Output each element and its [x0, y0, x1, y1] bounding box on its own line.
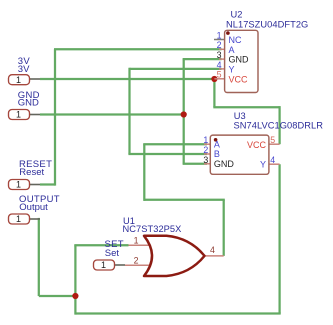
wire GND net vertical x=183.7 from U2 pin3	[183, 59, 185, 164]
U1 pin 2	[125, 264, 151, 266]
wire GND from port	[40, 113, 184, 115]
svg-text:1: 1	[217, 30, 222, 40]
junction dot at U2 VCC	[211, 76, 217, 82]
wire 3V down to U3 VCC pin5	[278, 106, 280, 144]
svg-text:GND: GND	[214, 159, 235, 169]
U2 pin 2 stub	[219, 48, 225, 50]
svg-text:Output: Output	[19, 202, 48, 213]
svg-text:1: 1	[16, 110, 21, 120]
wire bottom horizontal y=313.5	[75, 312, 280, 314]
wire feedback vertical x=75.4	[74, 245, 76, 314]
U3 pin 5 VCC stub	[269, 143, 280, 145]
svg-text:NC7ST32P5X: NC7ST32P5X	[123, 224, 182, 234]
svg-text:GND: GND	[229, 55, 250, 65]
junction dot GND net	[181, 111, 187, 117]
port 3V	[9, 56, 41, 85]
svg-text:3: 3	[203, 155, 208, 165]
wire U2Y-U3B vertical x=129.5	[128, 68, 130, 154]
wire OUTPUT stub-connect	[38, 218, 40, 219]
wire OUTPUT net: Y pin down right side	[278, 164, 280, 313]
wire into U3 pin1 A	[143, 143, 207, 145]
junction dot OUTPUT feedback	[72, 293, 78, 299]
wire 3V drop from junction	[213, 79, 215, 107]
svg-text:4: 4	[210, 245, 215, 255]
svg-text:1: 1	[134, 236, 139, 246]
svg-text:3: 3	[217, 50, 222, 60]
U2 body	[225, 30, 258, 92]
svg-text:4: 4	[270, 155, 275, 165]
svg-text:4: 4	[217, 60, 222, 70]
svg-text:2: 2	[203, 145, 208, 155]
wire into U3 pin2 B	[128, 153, 207, 155]
svg-text:A: A	[214, 139, 220, 149]
svg-text:1: 1	[16, 214, 21, 224]
svg-text:Reset: Reset	[19, 167, 44, 178]
wire RESET to U2 pin2 A	[54, 48, 222, 50]
svg-text:B: B	[214, 149, 220, 159]
wire 3V across to right	[213, 106, 279, 108]
U2 origin dot	[226, 31, 230, 35]
svg-text:2: 2	[217, 40, 222, 50]
svg-text:5: 5	[270, 135, 275, 145]
U3 pin 4 Y stub	[269, 163, 280, 165]
svg-text:U2: U2	[231, 9, 243, 19]
wire 3V horizontal to U2 VCC pin5	[40, 78, 214, 80]
wire U1 out vertical x=223.7	[223, 200, 225, 256]
svg-text:NC: NC	[229, 35, 242, 45]
port OUTPUT	[9, 194, 60, 224]
wire RESET vertical x=55	[54, 49, 56, 185]
wire OUTPUT port down	[38, 219, 40, 296]
OR gate U1 NC7ST32P5X	[123, 216, 224, 276]
U2 pin 5 VCC stub	[214, 78, 224, 80]
svg-text:1: 1	[16, 180, 21, 190]
wire RESET horizontal from port	[39, 49, 281, 314]
U1 pin 1	[129, 244, 152, 246]
U3 origin dot	[214, 138, 218, 142]
svg-text:1: 1	[101, 260, 106, 270]
U1 OR gate body	[144, 236, 205, 276]
svg-text:3V: 3V	[18, 64, 30, 75]
wire U1 out horizontal y=199.8	[144, 199, 225, 201]
AND gate U3 SN74LVC1G08DRLR	[203, 111, 323, 174]
U2 pin 4 stub	[219, 68, 225, 70]
wire OUTPUT port horizontal to junction	[39, 295, 76, 297]
U1 pin 4 output	[204, 255, 224, 257]
U3 pin 3 stub	[204, 163, 210, 165]
wire U2 Y pin4 horizontal	[130, 68, 222, 70]
svg-text:1: 1	[16, 75, 21, 85]
wire into U1 pin1	[74, 244, 128, 246]
svg-text:1: 1	[203, 135, 208, 145]
svg-text:NL17SZU04DFT2G: NL17SZU04DFT2G	[226, 20, 308, 30]
port RESET	[9, 159, 53, 190]
svg-text:GND: GND	[18, 98, 39, 109]
wire U3 pin3 GND horizontal	[183, 163, 207, 165]
svg-text:VCC: VCC	[247, 140, 267, 150]
svg-text:SN74LVC1G08DRLR: SN74LVC1G08DRLR	[234, 121, 324, 131]
port SET	[94, 239, 126, 270]
port GND	[9, 90, 41, 120]
wire U1out-U3A vertical x=144.3	[143, 144, 145, 201]
op-amp U2 inverter NL17SZU04DFT2G	[214, 9, 308, 92]
svg-text:Y: Y	[260, 159, 266, 169]
U2 pin 1 NC stub	[214, 39, 225, 41]
wire U2 pin3 GND horizontal	[183, 58, 222, 60]
U2 pin 3 stub	[219, 58, 225, 60]
svg-text:2: 2	[134, 256, 139, 266]
U3 pin 1 stub	[204, 143, 210, 145]
svg-text:5: 5	[217, 70, 222, 80]
U3 pin 2 stub	[204, 153, 210, 155]
svg-text:VCC: VCC	[229, 74, 249, 84]
svg-text:Y: Y	[229, 65, 235, 75]
svg-text:A: A	[229, 45, 235, 55]
svg-text:Set: Set	[105, 248, 120, 259]
U3 body	[210, 135, 269, 174]
